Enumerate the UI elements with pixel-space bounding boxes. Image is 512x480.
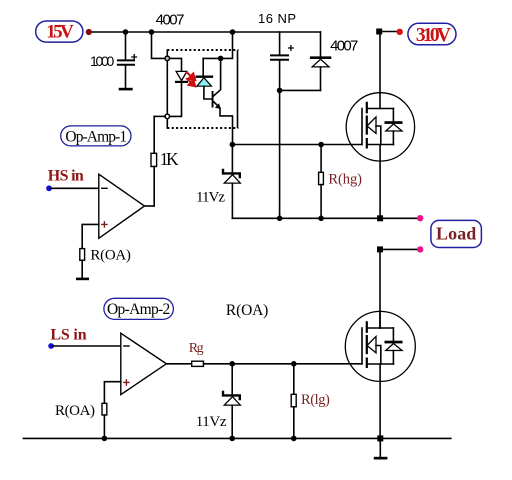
wire ground rail	[23, 437, 450, 439]
node load terminal lower	[417, 246, 423, 252]
svg-text:Op-Amp-1: Op-Amp-1	[65, 129, 127, 146]
node junction right opto supply	[230, 29, 236, 35]
zener D3 11Vz	[223, 364, 240, 439]
load label box	[431, 220, 482, 247]
power label 310V	[408, 23, 456, 46]
node ground rail R(OA)2	[102, 436, 108, 442]
wire op-amp1 + input	[82, 224, 99, 248]
opamp label Op-Amp-2	[104, 298, 173, 319]
svg-text:11Vz: 11Vz	[196, 414, 227, 430]
node source rail junction B	[318, 216, 324, 222]
node 310V terminal dot	[397, 29, 403, 35]
wire opto cathode to 1K	[154, 115, 165, 117]
power label 15V	[36, 21, 83, 43]
MOSFET Q1 (high side)	[346, 32, 414, 219]
wire top 15V rail	[90, 31, 321, 33]
ground bar op-amp1	[76, 278, 89, 281]
svg-text:HS in: HS in	[48, 167, 84, 184]
zener D1 11Vz	[223, 145, 240, 219]
node HS in terminal	[46, 185, 52, 191]
node ground rail Q2 source (square)	[377, 435, 383, 441]
node source rail junction C (square)	[377, 215, 383, 221]
optocoupler U1 dashed box	[167, 50, 238, 128]
wire HS in to op-amp	[51, 187, 99, 189]
svg-text:4007: 4007	[330, 38, 358, 55]
minus sign op-amp1	[102, 187, 107, 189]
node 16NP bottom junction	[277, 88, 283, 94]
node R(hg) top	[318, 142, 324, 148]
capacitor C1 1000uF	[118, 32, 137, 88]
wire R(OA)2 to ground rail	[103, 415, 105, 438]
wire HS source rail	[232, 217, 420, 219]
svg-text:R(OA): R(OA)	[55, 403, 95, 419]
op-amp U1 triangle	[99, 174, 145, 238]
svg-text:R(hg): R(hg)	[328, 172, 362, 188]
svg-text:310V: 310V	[416, 25, 451, 46]
opamp label Op-Amp-1	[61, 126, 131, 146]
svg-text:11Vz: 11Vz	[196, 189, 225, 205]
node load terminal upper	[417, 215, 423, 221]
node junction left opto supply	[149, 29, 155, 35]
node gate line left	[230, 142, 236, 148]
wire 310V stub	[379, 31, 400, 33]
diode D2 4007 (bootstrap)	[311, 32, 330, 90]
LED of optocoupler	[170, 58, 187, 116]
resistor Rg	[192, 361, 204, 366]
wire 15V to opto anode pin	[152, 32, 166, 58]
svg-text:1000: 1000	[90, 53, 115, 69]
resistor R(OA) op-amp2	[102, 403, 107, 415]
wire LS in to op-amp2	[53, 345, 121, 347]
svg-text:Op-Amp-2: Op-Amp-2	[107, 301, 170, 318]
node zener2 top	[229, 361, 235, 367]
phototransistor of optocoupler	[212, 58, 233, 144]
wire op-amp2 + input	[104, 382, 120, 404]
node LS in terminal	[48, 343, 54, 349]
wire op-amp1 output	[145, 205, 155, 207]
node junction at 1000uF cap top	[123, 29, 129, 35]
wire gate line HS	[232, 144, 362, 146]
node source rail junction A	[277, 216, 283, 222]
node 15V terminal dot	[86, 29, 92, 35]
svg-text:16 NP: 16 NP	[258, 11, 296, 26]
resistor R(lg)	[291, 364, 296, 439]
wire R(OA)1 to ground	[81, 260, 83, 277]
node 310V junction	[376, 29, 382, 35]
op-amp U2 triangle	[121, 333, 167, 394]
pin anode of optocoupler	[165, 56, 170, 61]
svg-text:LS in: LS in	[50, 326, 86, 343]
ground bar under C1	[119, 88, 133, 91]
svg-text:Rg: Rg	[189, 341, 204, 356]
resistor R(OA) op-amp1	[80, 249, 85, 261]
wire cap to diode bottom	[280, 89, 321, 91]
light arrows from LED	[187, 73, 195, 87]
wire load stub	[380, 248, 420, 250]
wire gate line LS	[204, 363, 362, 365]
wire load to Q2 drain	[379, 249, 381, 328]
svg-text:R(OA): R(OA)	[90, 248, 130, 264]
capacitor 16NP	[271, 32, 293, 218]
MOSFET Q2 (low side)	[345, 311, 415, 438]
node R(lg) top	[291, 361, 297, 367]
svg-text:4007: 4007	[156, 12, 185, 29]
plus sign op-amp1	[102, 222, 107, 227]
svg-text:R(OA): R(OA)	[226, 302, 268, 319]
ground symbol	[374, 438, 388, 459]
resistor 1K	[151, 116, 157, 205]
resistor R(hg)	[319, 145, 324, 219]
node ground rail R(lg)	[291, 436, 297, 442]
svg-text:1K: 1K	[160, 149, 179, 169]
svg-text:R(lg): R(lg)	[301, 392, 330, 408]
svg-text:15V: 15V	[46, 22, 74, 43]
node ground rail zener2	[229, 436, 235, 442]
wire op-amp2 output	[166, 363, 191, 365]
node load junction (square)	[377, 246, 383, 252]
minus sign op-amp2	[124, 345, 129, 347]
node collector junction	[218, 56, 224, 62]
photodiode (cyan) of optocoupler	[197, 58, 212, 99]
plus sign op-amp2	[124, 380, 129, 385]
wire 15V to opto collector	[203, 32, 232, 58]
pin cathode of optocoupler	[165, 114, 170, 119]
svg-text:Load: Load	[436, 224, 476, 244]
